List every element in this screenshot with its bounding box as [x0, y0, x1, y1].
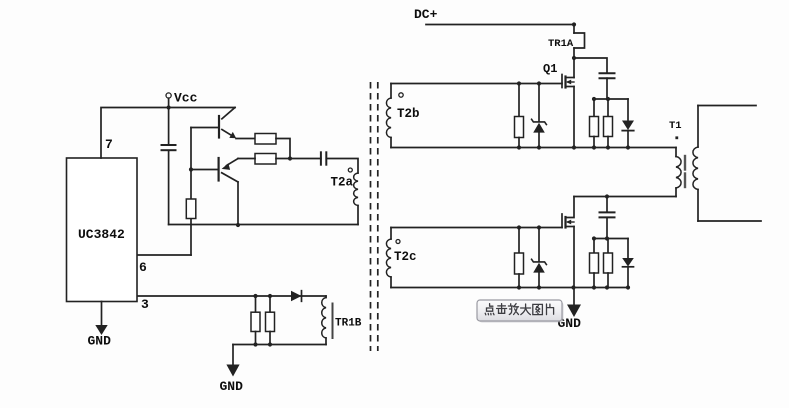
transistor Q3 emitter [222, 130, 234, 137]
capacitor C2 (upper snubber) [600, 72, 615, 74]
phase dot T2b [399, 93, 403, 97]
node bar-R3 junction [592, 97, 596, 101]
wire Q4 collector down [237, 182, 239, 225]
node base junction [189, 167, 193, 171]
transistor Q2 drain lead [566, 197, 575, 218]
wire T1 out bottom [698, 220, 761, 222]
winding T2a [354, 173, 358, 206]
node rail D2 [626, 145, 630, 149]
zener Z1 [538, 84, 540, 122]
resistor R5 [518, 84, 520, 117]
wire Vcc stub [168, 98, 170, 107]
resistor R7 (lower snubber) [593, 239, 595, 254]
button 点击放大图片 [479, 302, 564, 323]
svg-text:Vcc: Vcc [174, 91, 198, 106]
node Vcc junction [167, 105, 171, 109]
transistor Q3 collector [222, 108, 235, 119]
transistor Q3 base lead [191, 127, 218, 129]
wire Q2 drain rail to T1 [574, 196, 676, 198]
resistor R10 [255, 296, 257, 312]
wire pin3 lead [138, 295, 326, 297]
wire main source rail [391, 147, 676, 149]
node rail2 D3 [626, 285, 630, 289]
resistor R1 [255, 134, 276, 145]
transistor Q1 body bar [564, 77, 566, 88]
transistor Q2 body bar [564, 217, 566, 228]
resistor R4 (upper snubber) [607, 99, 609, 117]
svg-text:3: 3 [141, 297, 149, 312]
wire cap C2 to RC bar [606, 78, 608, 99]
svg-text:DC+: DC+ [414, 7, 438, 22]
transistor Q2 gate bar [561, 214, 563, 228]
diode D2 (upper snubber) [627, 99, 629, 121]
wire snubber cap branch [574, 58, 607, 73]
svg-text:T2c: T2c [394, 250, 417, 264]
wire TR1A top lead [573, 25, 575, 34]
resistor R8 (lower snubber) [607, 239, 609, 254]
transistor Q2 source lead [566, 226, 575, 228]
node DC+/TR1A junction [572, 22, 576, 26]
ground GND2 [232, 345, 234, 365]
transistor Q4 (lower PNP) base bar [218, 158, 220, 181]
wire Q2 source to rail2 [573, 227, 575, 288]
transistor Q1 gate bar [561, 75, 563, 88]
node bar-cap junction [606, 97, 610, 101]
wire TR1B bottom rail [233, 344, 326, 346]
capacitor C4 (coupling) [320, 152, 322, 164]
node rail R3 [592, 145, 596, 149]
svg-text:GND: GND [220, 379, 244, 394]
wire lower ground rail [391, 287, 628, 289]
wire return rail [169, 224, 358, 226]
wire Q4 emitter to R2 [238, 158, 255, 160]
resistor R3 (upper snubber) [593, 99, 595, 117]
svg-text:T2a: T2a [331, 176, 354, 190]
wire Q1 source to rail [573, 87, 575, 148]
wire pin6 lead [138, 254, 191, 256]
diode D1 [291, 291, 302, 302]
svg-text:TR1A: TR1A [548, 38, 574, 50]
phase dot T1 [675, 136, 678, 139]
node rail R11 [268, 342, 272, 346]
transformer core T2 (dashed) [370, 82, 372, 351]
node rail2 R6 [517, 285, 521, 289]
svg-text:TR1B: TR1B [335, 318, 362, 330]
phase dot T2c [396, 240, 400, 244]
winding T1 secondary [697, 106, 699, 148]
resistor R2 [255, 154, 276, 165]
node T2b-Z1 junction [537, 81, 541, 85]
transistor Q4 emitter [227, 159, 239, 166]
node rail R5 [517, 145, 521, 149]
svg-text:GND: GND [88, 334, 112, 349]
node rail2 Z2 [537, 285, 541, 289]
node pin3-R10 junction [253, 294, 257, 298]
node drain rail cap junction [605, 194, 609, 198]
node bar2-cap junction [605, 236, 609, 240]
svg-text:T1: T1 [669, 120, 682, 132]
wire DC+ rail [426, 24, 574, 26]
transistor Q4 collector [222, 173, 238, 182]
node bar2-R7 junction [592, 236, 596, 240]
node R2 output junction [288, 156, 292, 160]
wire upper RC top bar [594, 98, 628, 100]
svg-text:T2b: T2b [397, 107, 420, 121]
terminal Vcc circle [166, 93, 171, 98]
node rail2 R7 [592, 285, 596, 289]
ic U1 UC3842 box [67, 158, 138, 302]
resistor R9 (base column) [186, 199, 196, 219]
node rail2 Q2 source [571, 285, 575, 289]
ground GND1 [101, 302, 103, 326]
node T2c-R6 junction [517, 225, 521, 229]
wire pin7 to Vcc rail [101, 108, 235, 159]
node rail Q1 source [572, 145, 576, 149]
node rail Z1 [537, 145, 541, 149]
ground GND3 tap [573, 288, 575, 305]
wire T1 out top [698, 105, 756, 107]
wire T2c top rail to Q2 gate [391, 227, 562, 229]
zener Z2 [538, 228, 540, 262]
phase dot T2a [348, 168, 352, 172]
capacitor C1 (Vcc bypass) [168, 108, 170, 145]
transistor Q1 arrow [568, 81, 574, 83]
wire lower RC top bar [594, 238, 628, 240]
resistor R11 [269, 296, 271, 312]
transistor Q1 source lead [566, 86, 575, 88]
winding T1 primary [675, 148, 677, 157]
capacitor C3 (lower snubber) [606, 197, 608, 213]
node rail2 cap [605, 285, 609, 289]
transistor Q3 (upper NPN) base bar [218, 116, 220, 138]
core TR1B [332, 304, 334, 327]
wire R1 to R2 column [276, 139, 290, 159]
svg-text:6: 6 [139, 260, 147, 275]
node drain/snubber junction [572, 56, 576, 60]
resistor R6 [518, 228, 520, 254]
svg-text:7: 7 [105, 137, 113, 152]
wire TR1A to Q1 drain [573, 48, 575, 78]
node collector/rail junction [236, 223, 240, 227]
winding TR1B [325, 296, 327, 298]
node rail R4 [606, 145, 610, 149]
wire cap to T2a [326, 159, 358, 174]
wire base column [190, 128, 192, 256]
node pin3-R11 junction [268, 294, 272, 298]
node rail R10 [253, 342, 257, 346]
transistor Q2 arrow [568, 221, 574, 223]
wire T2b top rail to Q1 gate [391, 83, 562, 85]
node T2b-R5 junction [517, 81, 521, 85]
core T1 [684, 156, 686, 170]
svg-text:Q1: Q1 [543, 62, 557, 76]
node T2c-Z2 junction [537, 225, 541, 229]
winding T2c [390, 228, 392, 240]
transistor Q1 drain lead [566, 77, 575, 79]
wire to coupling cap [276, 158, 321, 160]
diode D3 (lower snubber) [627, 239, 629, 259]
wire emitter to R1 [236, 138, 255, 140]
transformer TR1A (current transformer winding) [574, 33, 585, 48]
transistor Q4 base lead [191, 169, 218, 171]
svg-text:UC3842: UC3842 [78, 227, 125, 242]
winding T2b [390, 84, 392, 99]
